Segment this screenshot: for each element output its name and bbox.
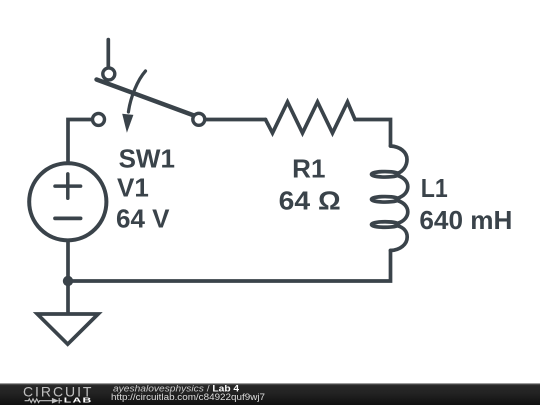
footer bar [0,383,540,405]
svg-text:SW1: SW1 [119,144,175,174]
ground [37,314,98,344]
svg-text:http://circuitlab.com/c84922qu: http://circuitlab.com/c84922quf9wj7 [111,392,265,402]
label R1 [292,154,325,184]
node junction dot [63,276,73,286]
V1 minus sign [55,217,81,221]
svg-text:64 V: 64 V [116,203,170,233]
wire from switch right contact to resistor [206,118,265,122]
label V1 [117,172,149,202]
logo squiggle resistor-diode [25,398,63,404]
switch right terminal circle [193,113,205,125]
svg-text:V1: V1 [117,172,149,202]
switch SW1 blade [97,80,195,116]
svg-text:L1: L1 [421,173,448,203]
svg-text:LAB: LAB [64,397,93,405]
resistor R1 [266,102,356,133]
wire from inductor bottom to node and source bottom [68,243,391,282]
value label 640 mH [419,205,512,235]
wire from switch left contact to source top [68,120,92,162]
switch left terminal circle [93,113,105,125]
wire top stub above switch [106,40,110,67]
svg-text:64 Ω: 64 Ω [279,186,341,216]
label L1 [421,173,448,203]
svg-text:R1: R1 [292,154,325,184]
label SW1 [119,144,175,174]
value label 64 V [116,203,170,233]
CircuitLab logo text CIRCUIT [23,383,93,399]
attribution line 2 [111,392,265,402]
wire from resistor to inductor top [355,120,391,147]
svg-text:640 mH: 640 mH [419,205,512,235]
switch actuation arc [128,71,145,112]
voltage source V1 circle [29,163,106,240]
CircuitLab logo text LAB [64,397,93,405]
value label 64 Ω [279,186,341,216]
attribution line 1 [113,384,240,394]
switch arrowhead [122,114,133,133]
inductor L1 [372,146,408,251]
wire node to ground [66,281,70,314]
V1 plus sign [55,174,81,198]
switch top terminal circle [103,68,115,80]
